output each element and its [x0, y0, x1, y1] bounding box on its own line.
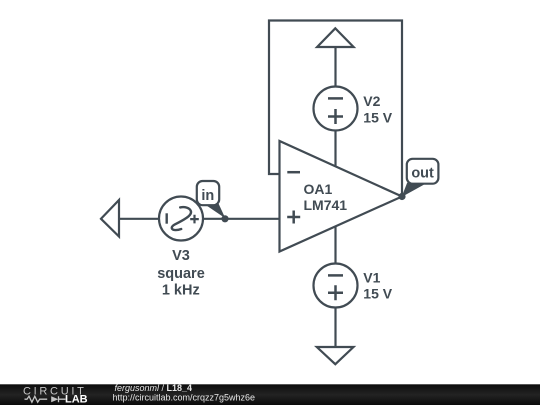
node in (junction dot)	[221, 215, 228, 222]
svg-text:LM741: LM741	[304, 197, 348, 213]
wire op-amp bottom edge to V1 top	[334, 227, 336, 264]
svg-text:out: out	[411, 166, 434, 182]
V3 plus mark	[190, 215, 199, 224]
wire feedback loop (output to inverting input)	[269, 21, 402, 197]
flag out box	[407, 159, 439, 184]
flag pointer for out	[402, 183, 424, 197]
svg-text:V1: V1	[363, 269, 380, 285]
svg-text:V2: V2	[363, 93, 380, 109]
op-amp inverting input mark	[287, 171, 300, 174]
V2 minus mark	[328, 97, 343, 100]
svg-text:15 V: 15 V	[363, 286, 392, 302]
svg-text:http://circuitlab.com/crqzz7g5: http://circuitlab.com/crqzz7g5whz6e	[113, 393, 256, 403]
svg-text:V3: V3	[172, 248, 190, 264]
op-amp non-inverting input mark	[287, 211, 300, 224]
svg-text:OA1: OA1	[304, 181, 333, 197]
V1 plus mark	[328, 285, 343, 300]
V3 minus mark (rotated)	[165, 213, 167, 223]
V3 square-wave glyph	[172, 207, 191, 230]
ground symbol (left-pointing) at V3 minus	[101, 200, 119, 237]
svg-text:square: square	[157, 266, 205, 282]
wire V2 top terminal to up flag	[334, 47, 336, 87]
svg-text:LAB: LAB	[65, 393, 88, 405]
wire V2 bottom to op-amp top edge	[334, 131, 336, 167]
ground symbol (up-pointing) at V2 minus	[317, 28, 354, 47]
voltage source V3 (signal generator) circle	[159, 197, 203, 241]
flag pointer for in	[205, 204, 225, 219]
svg-text:in: in	[201, 188, 214, 204]
node out (junction dot)	[398, 193, 405, 200]
svg-text:1 kHz: 1 kHz	[162, 283, 200, 299]
ground symbol (down-pointing)	[317, 347, 354, 364]
voltage source V1 circle	[314, 264, 358, 308]
V1 minus mark	[328, 274, 343, 277]
wire V1 bottom to ground	[334, 308, 336, 348]
wire input: left ground to op-amp + input	[119, 218, 280, 220]
op-amp OA1 triangle	[280, 141, 403, 252]
V2 plus mark	[328, 109, 343, 124]
svg-text:15 V: 15 V	[363, 109, 392, 125]
svg-text:fergusonml / L18_4: fergusonml / L18_4	[115, 383, 193, 393]
CircuitLab logo resistor + diode glyph	[25, 396, 66, 402]
flag in box	[197, 181, 219, 205]
voltage source V2 circle	[314, 87, 358, 131]
